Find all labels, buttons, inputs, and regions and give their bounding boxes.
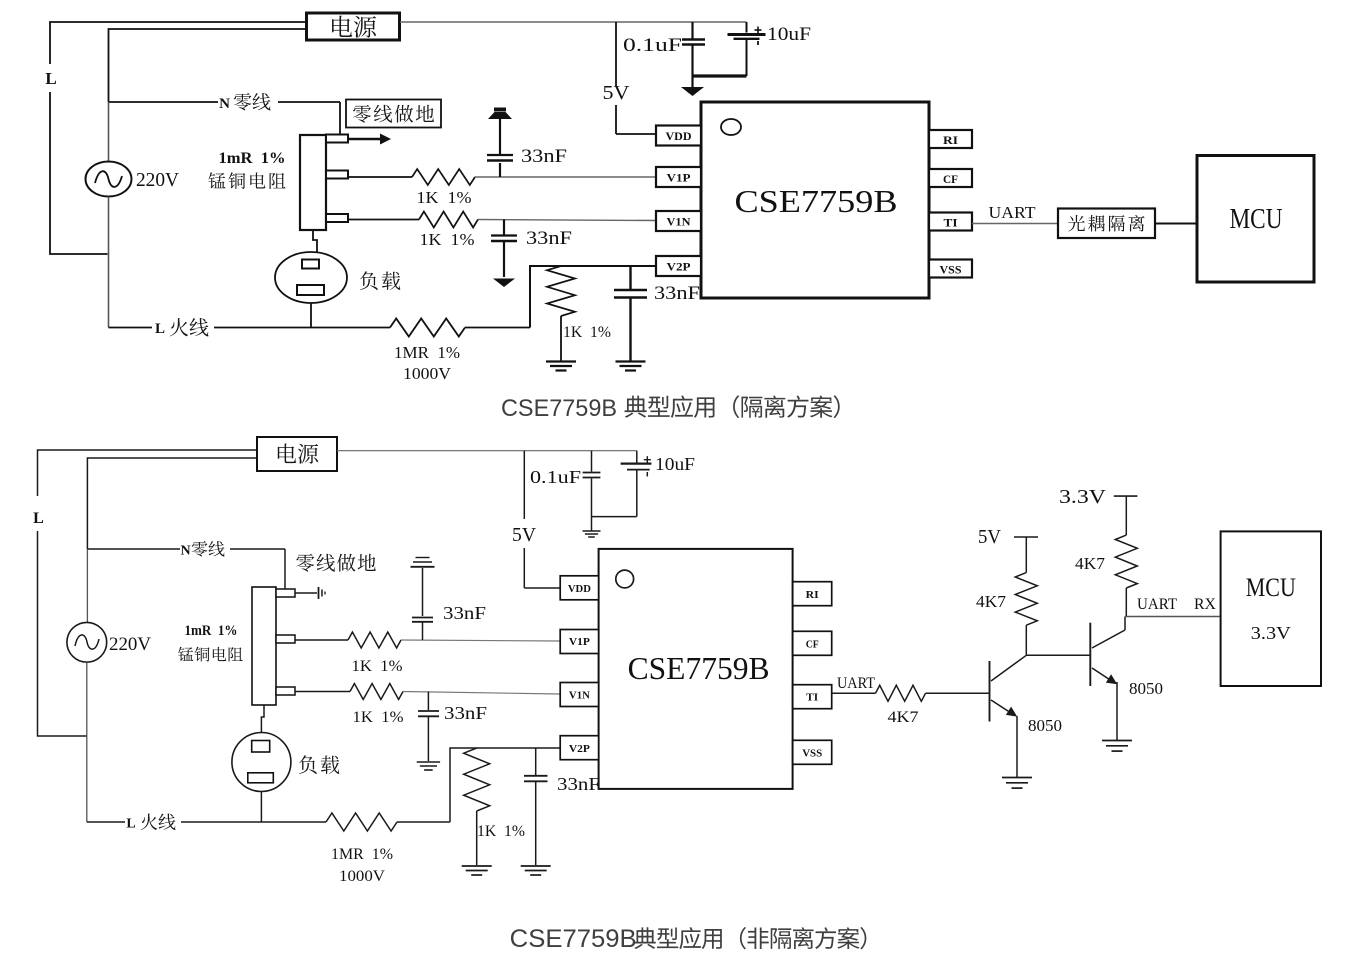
wire L loop top (top) (50, 22, 306, 64)
wire 220V source bottom lead (bottom) (86, 662, 88, 822)
svg-text:TI: TI (944, 218, 959, 230)
wire shunt tab2 to R1 (top) (348, 176, 412, 178)
label 零线做地 (bottom) (296, 554, 314, 572)
svg-text:5V: 5V (512, 524, 537, 546)
optocoupler box 光耦隔离 (top) (1058, 209, 1155, 239)
shunt pin tab 1 (top) (326, 135, 348, 143)
svg-text:33nF: 33nF (443, 603, 486, 623)
ground triangle below C4 (top) (691, 76, 693, 87)
wire R6 to V1N pin (bottom) (403, 692, 560, 695)
shunt pin tab 2 (bottom) (276, 635, 295, 643)
svg-text:33nF: 33nF (557, 774, 600, 794)
wire 220V source top lead (bottom) (86, 549, 88, 622)
svg-text:CF: CF (806, 638, 819, 650)
load bottom lead (top) (310, 303, 312, 328)
supply tick 3.3V (bottom) (1114, 495, 1138, 497)
pin V1N U1 (top) (656, 211, 701, 231)
zero-line-ground box 零线做地 (top) (346, 100, 441, 128)
pin RI U1 (top) (929, 130, 972, 148)
svg-text:V2P: V2P (569, 743, 590, 755)
capacitor C10 10uF electrolytic (bottom) (636, 451, 638, 463)
shunt bottom jog wire (top) (313, 230, 317, 252)
svg-text:TI: TI (806, 691, 818, 703)
capacitor C2 33nF on V1N (top) (503, 220, 505, 235)
wire L fire line (bottom) (87, 821, 326, 823)
svg-text:4K7: 4K7 (1075, 554, 1106, 573)
load inner contact 2 (top) (297, 285, 324, 295)
wire Q1 collector node to Q2 base (bottom) (1026, 654, 1090, 656)
label 锰铜电阻 (top) (208, 172, 225, 188)
label 负载 (top) (360, 271, 378, 290)
load inner contact 2 (bottom) (248, 773, 273, 783)
svg-text:N: N (180, 544, 190, 559)
resistor R3 1K vertical (top) (547, 266, 575, 316)
wire from power box to N vertical (bottom) (87, 458, 257, 549)
svg-text:1MR 1%: 1MR 1% (394, 343, 460, 362)
svg-text:1K 1%: 1K 1% (477, 823, 525, 840)
load inner contact 1 (bottom) (252, 741, 270, 753)
svg-text:1K 1%: 1K 1% (352, 658, 403, 675)
svg-text:1000V: 1000V (403, 364, 452, 383)
svg-text:10uF: 10uF (655, 454, 695, 474)
transistor Q2 8050 NPN (bottom) (1089, 623, 1091, 686)
svg-text:V2P: V2P (667, 262, 691, 274)
svg-text:V1N: V1N (667, 217, 692, 229)
ground flag up C1 (top) (488, 112, 512, 119)
plus marker C5 (top) (755, 29, 762, 31)
svg-text:8050: 8050 (1129, 679, 1163, 698)
svg-text:3.3V: 3.3V (1251, 623, 1291, 643)
svg-text:33nF: 33nF (444, 703, 487, 723)
pin1 dot U1 (top) (721, 119, 741, 135)
svg-text:UART: UART (1137, 596, 1177, 613)
load inner contact 1 (top) (302, 260, 319, 269)
svg-text:MCU: MCU (1230, 204, 1283, 235)
load 负载 (top) (275, 252, 347, 303)
pin TI U1 (top) (929, 213, 972, 231)
svg-text:10uF: 10uF (767, 24, 811, 45)
resistor R7 1K vertical (bottom) (464, 748, 490, 811)
arrow to neutral ground (top) (348, 138, 381, 140)
svg-text:33nF: 33nF (654, 283, 700, 304)
shunt pin tab 1 (bottom) (276, 589, 295, 597)
wire N line horizontal (bottom) (87, 548, 285, 550)
wire cap bottoms (bottom) (592, 516, 637, 518)
pin CF U2 (bottom) (793, 631, 832, 655)
wire shunt tab2 to R5 (bottom) (295, 639, 348, 641)
pin V1N U2 (bottom) (560, 683, 598, 707)
svg-text:CSE7759B: CSE7759B (628, 650, 770, 686)
load bottom lead (bottom) (260, 792, 262, 823)
svg-text:4K7: 4K7 (888, 709, 919, 726)
wire R9 to Q1 base (bottom) (926, 692, 990, 694)
label 负载 (bottom) (299, 755, 317, 774)
capacitor C6 33nF on V1P (bottom) (422, 568, 424, 616)
svg-text:L: L (33, 510, 44, 527)
wire L loop top (bottom) (38, 450, 258, 496)
AC source 220V (top) (86, 162, 132, 197)
wire 5V tick to R10 (bottom) (1025, 537, 1027, 573)
svg-text:1K 1%: 1K 1% (563, 324, 611, 341)
wire TI to R9 (bottom) (832, 692, 876, 694)
resistor R4 1MR on L fire line (top) (390, 319, 465, 337)
resistor R6 1K 1% (bottom) (350, 684, 403, 700)
svg-text:33nF: 33nF (521, 146, 567, 167)
svg-text:L: L (45, 69, 56, 88)
shunt resistor body 1mR (bottom) (252, 587, 276, 705)
transistor Q1 8050 NPN (bottom) (989, 661, 991, 722)
shunt pin tab 3 (top) (326, 214, 348, 222)
svg-text:CSE7759B: CSE7759B (735, 183, 898, 219)
svg-text:1000V: 1000V (339, 868, 385, 885)
wire 5V to VDD (top) (616, 133, 656, 135)
ground R7 (bottom) (462, 865, 492, 867)
svg-text:4K7: 4K7 (976, 592, 1007, 611)
svg-text:1K 1%: 1K 1% (417, 188, 472, 207)
svg-text:V1P: V1P (569, 636, 590, 648)
ground Q1 (bottom) (1002, 777, 1032, 779)
shunt pin tab 2 (top) (326, 171, 348, 179)
pin1 dot U2 (bottom) (616, 570, 634, 588)
svg-text:1K 1%: 1K 1% (420, 230, 475, 249)
wire shunt tab3 to R2 (top) (348, 219, 419, 221)
pin TI U2 (bottom) (793, 685, 832, 709)
wire L loop bottom (bottom) (38, 531, 87, 736)
ground below C9 (bottom) (591, 517, 593, 531)
label 锰铜电阻 (bottom) (178, 647, 193, 661)
resistor R1 1K 1% (top) (412, 169, 475, 185)
pin V2P U1 (top) (656, 256, 701, 276)
resistor R5 1K 1% (bottom) (348, 632, 401, 648)
wire power rail to caps (top) (400, 21, 747, 23)
ground flag up C6 (bottom) (416, 557, 430, 559)
shunt resistor body 1mR (top) (300, 135, 326, 230)
wire optocoupler to MCU (top) (1155, 223, 1197, 225)
svg-text:VSS: VSS (802, 747, 822, 759)
pin CF U1 (top) (929, 169, 972, 187)
IC U2 CSE7759B (bottom) (599, 549, 793, 789)
wire 220V source bottom lead (top) (108, 197, 110, 328)
ground C8 (bottom) (521, 865, 551, 867)
MCU box (top) (1197, 156, 1314, 283)
svg-text:CF: CF (943, 174, 958, 186)
svg-text:UART: UART (989, 203, 1037, 222)
svg-text:0.1uF: 0.1uF (530, 467, 581, 487)
svg-text:L: L (126, 817, 135, 832)
wire from power box to N vertical (top) (109, 29, 307, 102)
svg-text:220V: 220V (109, 634, 151, 655)
load 负载 (bottom) (232, 733, 291, 792)
capacitor C1 33nF on V1P (top) (499, 163, 501, 177)
capacitor C5 10uF electrolytic (top) (746, 22, 748, 33)
wire 220V source top lead (top) (108, 102, 110, 162)
AC source 220V (bottom) (67, 622, 107, 662)
wire L fire line (top) (109, 327, 391, 329)
svg-text:V1N: V1N (569, 690, 590, 702)
wire TI to optocoupler (top) (972, 223, 1058, 225)
power box 电源 (bottom) (257, 437, 337, 471)
svg-text:CSE7759B: CSE7759B (501, 395, 617, 422)
svg-text:CSE7759B: CSE7759B (510, 925, 637, 953)
plus marker C10 (bottom) (644, 459, 651, 461)
svg-text:0.1uF: 0.1uF (623, 35, 682, 56)
pin VDD U1 (top) (656, 126, 701, 146)
ground C7 (bottom) (417, 761, 440, 763)
svg-text:UART: UART (837, 675, 875, 692)
svg-text:1mR 1%: 1mR 1% (219, 150, 286, 167)
ground C3 (top) (616, 360, 646, 362)
capacitor C3 33nF on V2P (top) (629, 266, 631, 289)
svg-text:RX: RX (1194, 596, 1216, 613)
svg-text:N: N (219, 96, 230, 112)
shunt pin tab 3 (bottom) (276, 687, 295, 695)
wire R2 to V1N pin (top) (478, 220, 656, 221)
resistor R9 4K7 (bottom) (876, 685, 926, 701)
small ground at shunt tab1 (bottom) (295, 592, 317, 594)
capacitor C7 33nF on V1N (bottom) (427, 692, 429, 711)
wire shunt tab3 to R6 (bottom) (295, 691, 350, 693)
wire 5V drop (top) (615, 22, 617, 86)
resistor R10 4K7 vertical (bottom) (1015, 573, 1037, 626)
wire 5V drop (bottom) (523, 451, 525, 519)
ground Q2 (bottom) (1102, 740, 1132, 742)
pin V1P U2 (bottom) (560, 630, 598, 654)
resistor R8 1MR on L fire (bottom) (326, 813, 397, 831)
capacitor C4 0.1uF (top) (691, 22, 693, 39)
svg-text:1MR 1%: 1MR 1% (331, 846, 393, 863)
pin VDD U2 (bottom) (560, 576, 598, 600)
svg-text:5V: 5V (603, 82, 631, 104)
svg-text:220V: 220V (136, 169, 180, 191)
wire Q2 emitter to ground (bottom) (1116, 682, 1118, 740)
pin V1P U1 (top) (656, 167, 701, 187)
wire node to MCU (bottom) (1125, 616, 1221, 618)
wire R5 to V1P pin (bottom) (401, 640, 560, 641)
wire R1 to V1P pin (top) (475, 176, 656, 178)
svg-text:3.3V: 3.3V (1059, 486, 1107, 508)
wire N line horizontal (top) (109, 101, 341, 103)
wire 3.3V tick to R11 (bottom) (1125, 496, 1127, 535)
wire N drop to shunt (bottom) (284, 549, 286, 589)
wire cap bottoms (top) (693, 74, 747, 77)
pin RI U2 (bottom) (793, 582, 832, 606)
power box 电源 (top) (307, 13, 400, 40)
pin V2P U2 (bottom) (560, 736, 598, 760)
svg-text:MCU: MCU (1246, 573, 1296, 602)
wire R10 to node (bottom) (1025, 625, 1027, 655)
wire L loop bottom (top) (50, 92, 108, 254)
svg-text:33nF: 33nF (526, 228, 572, 249)
MCU box (bottom) (1221, 531, 1321, 686)
wire V2P to junction (bottom) (450, 748, 560, 822)
svg-text:RI: RI (806, 589, 819, 601)
capacitor C8 33nF on V2P (bottom) (535, 748, 537, 775)
wire V2P from L fire to pin (top) (530, 266, 656, 328)
pin VSS U1 (top) (929, 260, 972, 278)
svg-text:8050: 8050 (1028, 716, 1062, 735)
wire N drop to shunt (top) (339, 102, 341, 136)
svg-text:V1P: V1P (667, 173, 691, 185)
svg-text:1mR 1%: 1mR 1% (185, 623, 238, 639)
wire power rail to caps (bottom) (337, 450, 637, 452)
shunt bottom jog wire (bottom) (261, 705, 264, 733)
wire 5V to VDD (bottom) (524, 587, 560, 589)
svg-text:1K 1%: 1K 1% (353, 709, 404, 726)
wire R11 to node (bottom) (1125, 588, 1127, 617)
resistor R11 4K7 vertical (bottom) (1115, 535, 1137, 588)
svg-text:VSS: VSS (940, 265, 962, 277)
wire Q2 collector to RX node (bottom) (1124, 617, 1126, 631)
ground triangle C2 (top) (493, 279, 515, 288)
ground R3 (top) (546, 360, 576, 362)
svg-text:RI: RI (943, 135, 959, 147)
wire Q1 emitter to ground (bottom) (1016, 716, 1018, 777)
svg-text:VDD: VDD (568, 583, 591, 595)
resistor R2 1K 1% (top) (419, 212, 478, 228)
svg-text:L: L (155, 321, 165, 337)
pin VSS U2 (bottom) (793, 740, 832, 764)
svg-text:5V: 5V (978, 526, 1002, 548)
capacitor C9 0.1uF (bottom) (591, 451, 593, 472)
svg-text:VDD: VDD (666, 131, 692, 143)
supply tick 5V (bottom) (1014, 536, 1038, 538)
IC U1 CSE7759B (top) (701, 102, 929, 298)
